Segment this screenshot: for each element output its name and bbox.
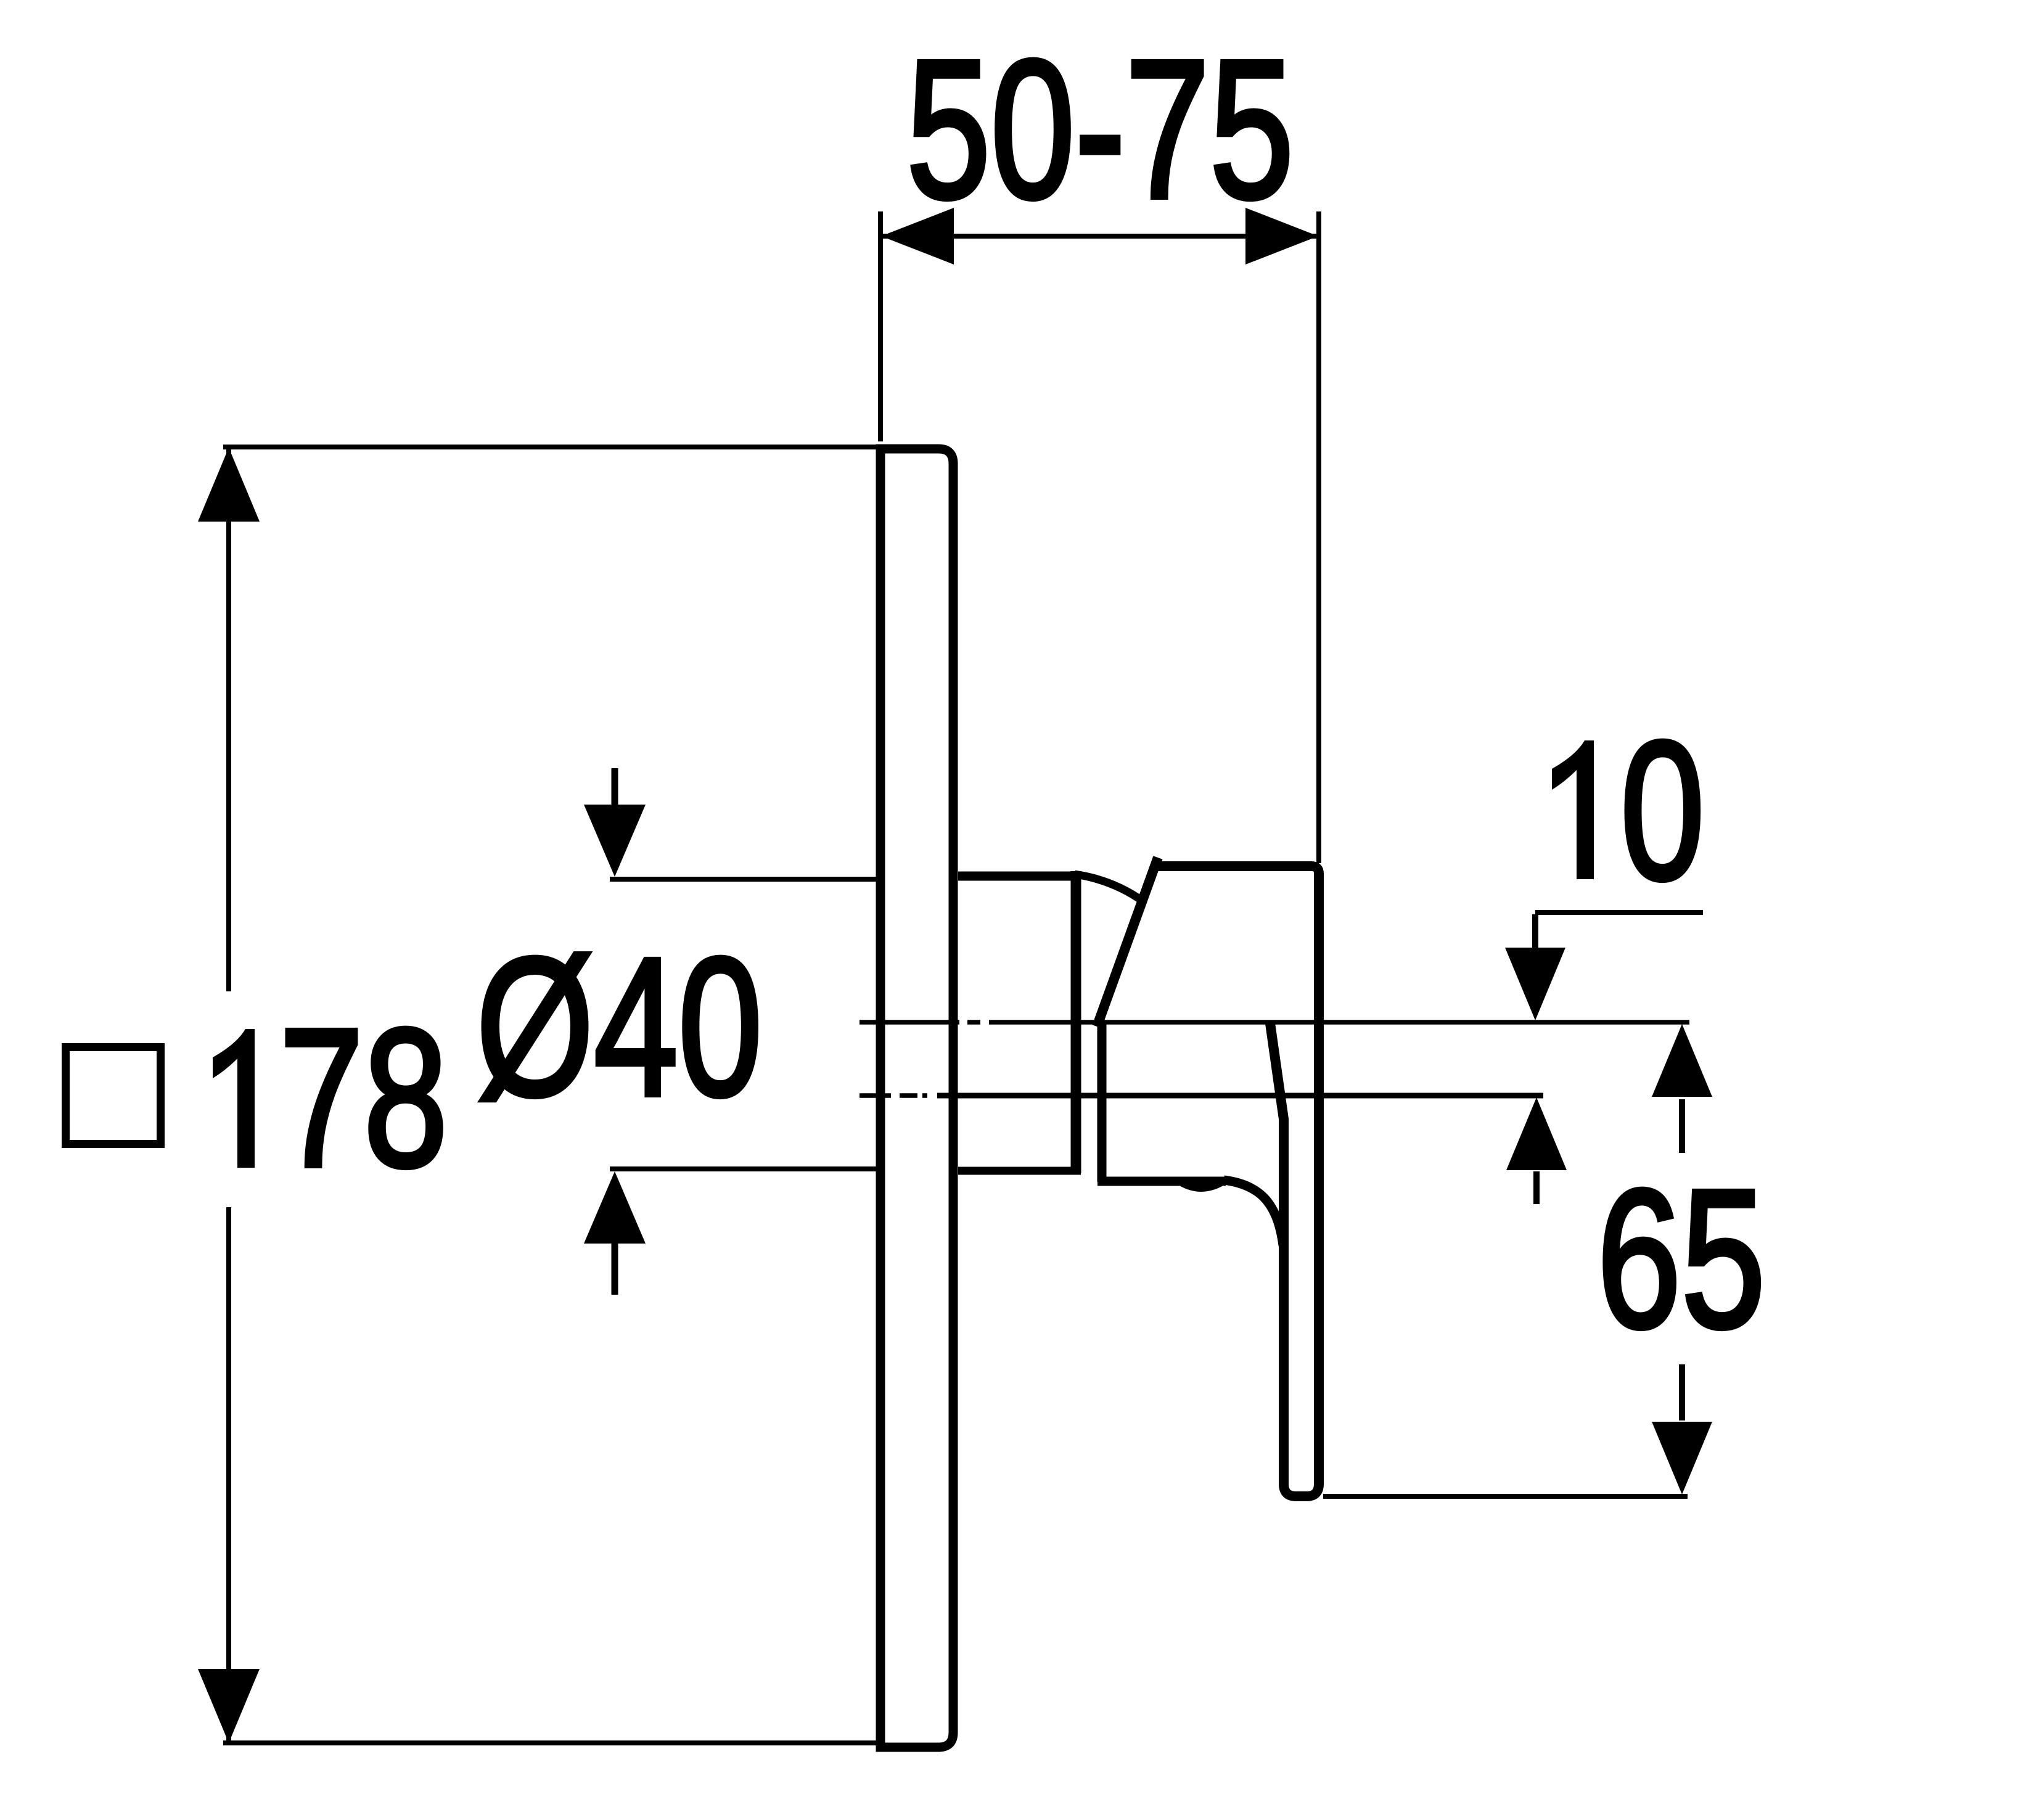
handle wedge front slant edge xyxy=(1097,858,1158,1027)
dimension 178 top extension line xyxy=(223,445,878,449)
center line A (valve axis) xyxy=(859,1020,1689,1025)
valve body rear vertical edge xyxy=(1097,1022,1107,1182)
fillet between body and grip xyxy=(1224,1180,1283,1245)
arrowhead Ø40 down xyxy=(584,805,646,877)
arrowhead 178 bottom xyxy=(198,1669,260,1743)
wall plate (square escutcheon, side view) xyxy=(880,449,953,1747)
valve sleeve bottom edge xyxy=(958,1167,1081,1175)
dimension 178 dimension line (gap for text) xyxy=(226,449,231,1741)
dimension 50-75 left extension line xyxy=(878,211,883,441)
arrowhead 50-75 right xyxy=(1245,208,1318,264)
arrowhead 65 up xyxy=(1652,1024,1712,1097)
handle outline (top edge, right edge, bottom, grip left edge) xyxy=(1154,866,1319,1496)
dimension Ø40 top extension line xyxy=(610,877,878,882)
arrowhead 50-75 left xyxy=(881,208,954,264)
dimension 65 bottom reference line xyxy=(1323,1494,1688,1499)
dimension 65 lower arrow shaft xyxy=(1679,1364,1685,1420)
valve sleeve top edge xyxy=(958,872,1076,881)
dimension 10 lower arrow shaft xyxy=(1533,1171,1540,1204)
dimension Ø40 bottom arrow shaft xyxy=(612,1244,618,1295)
set screw lens detail xyxy=(1171,1178,1231,1196)
arrowhead 10 down xyxy=(1505,948,1565,1020)
center line B (10 offset reference) xyxy=(859,1093,927,1098)
escutcheon dome arc xyxy=(1075,874,1143,901)
dimension Ø40 top arrow shaft xyxy=(612,768,618,808)
arrowhead Ø40 up xyxy=(584,1171,646,1244)
arrowhead 178 top xyxy=(198,448,260,522)
dimension text 178 : custom digit 1 xyxy=(213,1029,255,1168)
svg-text:Ø40: Ø40 xyxy=(476,917,763,1137)
dimension 50-75 right extension line xyxy=(1316,211,1321,863)
svg-text:50-75: 50-75 xyxy=(906,20,1294,240)
dimension 10 leader line xyxy=(1535,910,1703,915)
valve sleeve front edge xyxy=(1071,871,1081,1173)
svg-text:65: 65 xyxy=(1597,1149,1765,1369)
arrowhead 10 up xyxy=(1506,1097,1567,1170)
svg-text:0: 0 xyxy=(1620,701,1705,921)
dimension 65 upper arrow shaft xyxy=(1679,1099,1685,1153)
arrowhead 65 down xyxy=(1652,1422,1712,1494)
dimension text 10 : custom digit 1 xyxy=(1552,740,1594,879)
svg-text:78: 78 xyxy=(279,988,448,1208)
square symbol for 178 xyxy=(66,1047,161,1144)
dimension 178 bottom extension line xyxy=(223,1740,878,1745)
dimension 50-75 dimension line xyxy=(880,234,1319,239)
dimension 10 upper arrow shaft xyxy=(1532,914,1538,953)
dimension Ø40 bottom extension line xyxy=(610,1166,878,1171)
valve body bottom edge xyxy=(1097,1177,1226,1186)
